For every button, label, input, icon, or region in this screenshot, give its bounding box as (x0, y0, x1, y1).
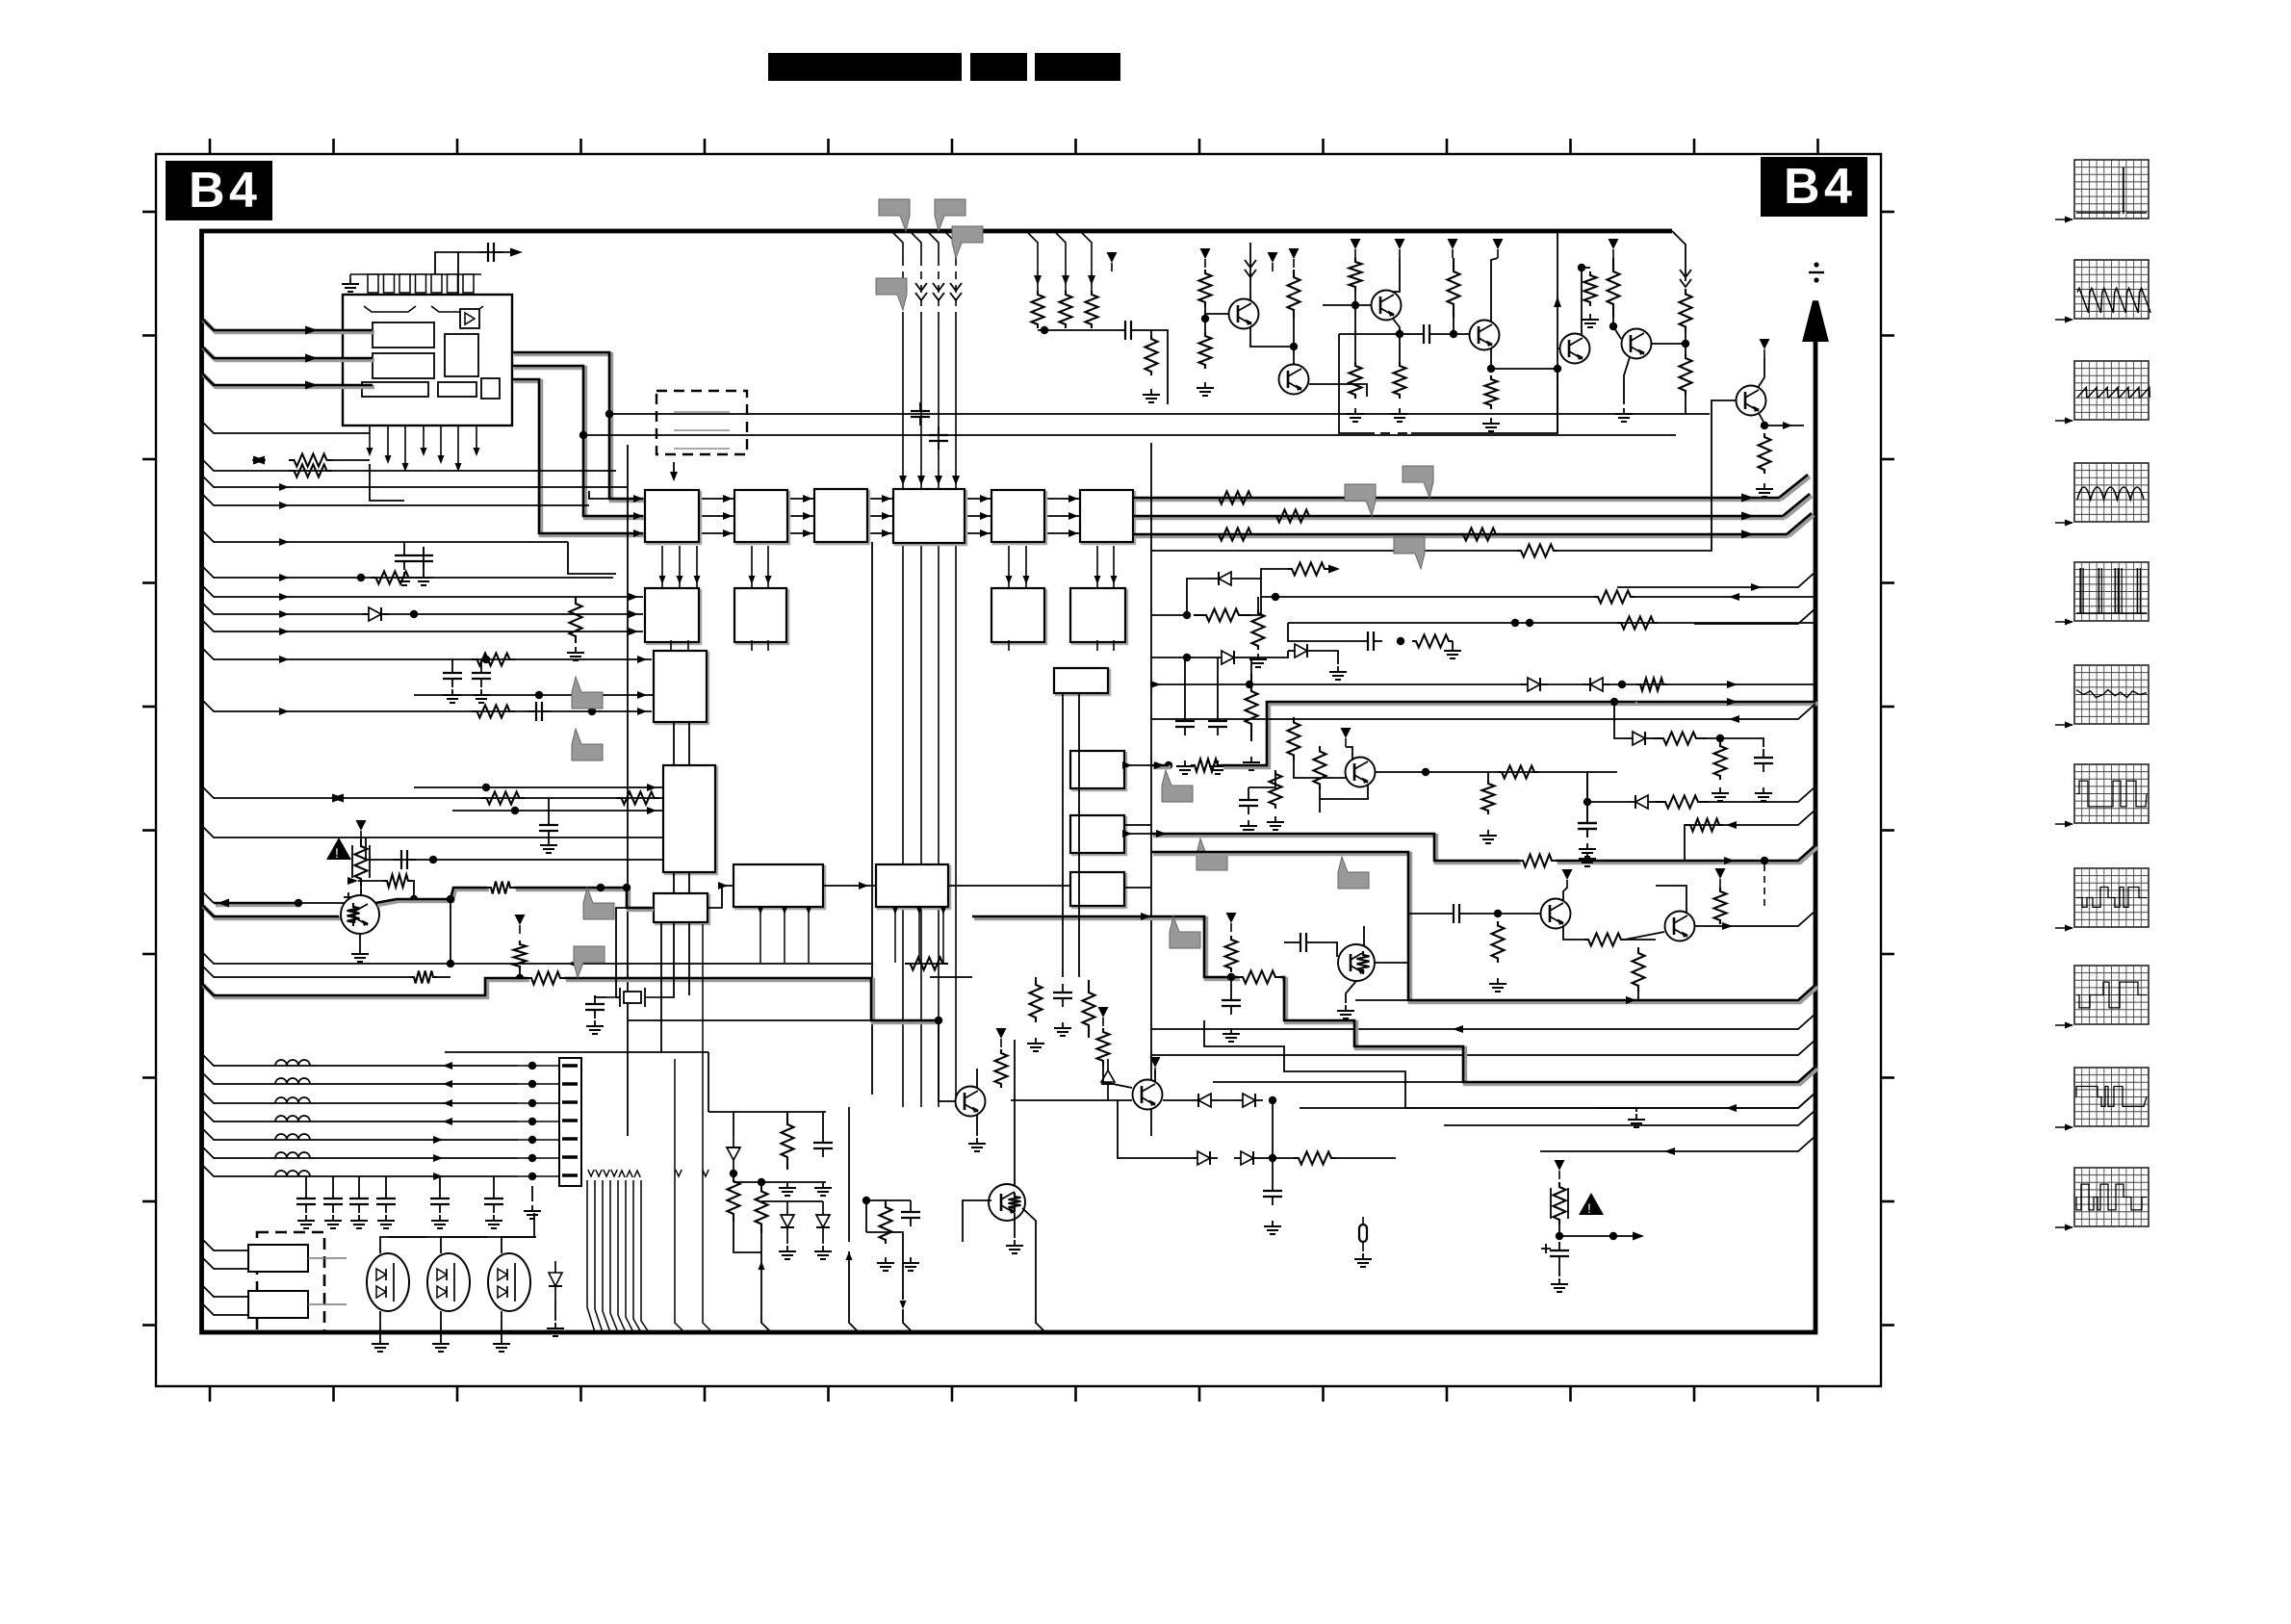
oscilloscope waveform thumbnail W2 (2055, 260, 2150, 323)
junction y833 (1583, 798, 1591, 806)
wire oc3 gnd (501, 1311, 502, 1338)
resistor R_q1b (487, 882, 514, 894)
supply arrow S_iso2 (1555, 1160, 1565, 1179)
capacitor C_f1 (393, 850, 416, 869)
wire iso1 (298, 902, 361, 904)
ground G_iso1 (352, 916, 370, 930)
resistor R_te1 (1608, 258, 1620, 318)
resistor R_c4 (1252, 609, 1265, 650)
wire tb em rail (1491, 368, 1557, 370)
wire qr em (1346, 981, 1356, 1003)
transistor Q2 (1346, 758, 1376, 787)
wire q2 hb (1248, 770, 1275, 787)
arrowhead wire exit y1039 (1626, 996, 1636, 1004)
wire ct1 (305, 1176, 307, 1190)
wire J1 gnd (531, 1186, 533, 1201)
ic U1 sub-block E (438, 382, 476, 397)
bus RGB red (1133, 498, 1781, 500)
diode D_r3 (1628, 795, 1655, 809)
arrowhead st2b (1724, 857, 1735, 864)
ground G_q13 (1006, 1240, 1023, 1253)
wire bc v2b (760, 1233, 762, 1252)
ic U1 sub-block D (362, 382, 428, 397)
resistor R_rgb4 (1459, 528, 1500, 541)
arrowhead wire in y620 (279, 593, 289, 601)
ground G_oc2 (432, 1338, 450, 1352)
arrowhead tun2 (443, 1099, 452, 1107)
ground G_td em (1615, 408, 1633, 422)
capacitor C_t1 (296, 1190, 316, 1213)
wire trio2 (1140, 329, 1151, 331)
wire in y525 (201, 493, 589, 505)
arrowhead q3b (1722, 922, 1733, 930)
wire x1618 (1557, 231, 1558, 433)
arrowheads RGB (1741, 494, 1754, 539)
wire exit y648b (1694, 608, 1815, 624)
diode D_c3 (1288, 644, 1315, 657)
wire U1 top feed (435, 252, 458, 274)
bus q1 out2 (514, 888, 654, 910)
wire oc2 top (441, 1237, 487, 1253)
capacitor C_q2o (1578, 814, 1597, 838)
supply arrow S_a (356, 820, 367, 839)
junction y647c (1526, 619, 1533, 627)
capacitor C_u563_1 (414, 547, 433, 570)
transistor Q3 (1541, 899, 1571, 929)
ic block U12 (654, 651, 708, 724)
wire g2 (616, 908, 654, 972)
wire tuner in y1107 (201, 1053, 518, 1066)
transistor Q5 (1229, 299, 1259, 329)
resistor R_t1 (1032, 291, 1044, 328)
diode D_r1 (1626, 732, 1653, 745)
optocoupler OC1 (367, 1253, 409, 1311)
wire td col (1652, 343, 1686, 345)
resistor R_r3 (1655, 796, 1709, 809)
capacitor C_iso1 (351, 891, 371, 915)
iso zigzag Q1 (348, 903, 360, 926)
wire q1 drop (450, 899, 451, 964)
wire u16 out (948, 885, 1070, 887)
wire U2 loop (673, 462, 675, 472)
resistor R_q2d (1498, 766, 1538, 779)
wire dc4 (1635, 596, 1815, 598)
svg-text:!: ! (1587, 1200, 1591, 1216)
resistor R_stA2 (1225, 936, 1238, 972)
arrowhead qa (1783, 422, 1792, 429)
junction q1o2 (623, 884, 631, 891)
wire q3 b (1468, 913, 1540, 915)
up arrow bc (759, 1261, 765, 1270)
ground G_t3 (350, 1215, 368, 1228)
capacitor C_u685_0 (443, 664, 462, 687)
wire y647 (1288, 622, 1515, 624)
wire r1b (1707, 738, 1763, 747)
arrowhead u19 (1122, 830, 1132, 838)
resistor R_tb3 (1485, 375, 1498, 409)
junction dc2 (1272, 593, 1279, 601)
zener diode D_z1 (727, 1136, 740, 1173)
capacitor C_rc2 (901, 1203, 920, 1226)
resistor R_1751b (1680, 354, 1692, 395)
resistor R_t4 (1145, 335, 1158, 375)
bus x652 (627, 445, 629, 1136)
wire bc v1b (734, 1222, 761, 1252)
connector flag F11 (1170, 916, 1200, 948)
ground G_s1265 (1209, 760, 1226, 774)
wire in y829 (201, 786, 663, 798)
wire q12 e (976, 1114, 978, 1136)
arrowhead e2 (637, 691, 647, 699)
wire e down2 (688, 722, 690, 765)
junction q1c (410, 895, 418, 903)
oscilloscope waveform thumbnail W4 (2055, 463, 2149, 527)
ground G_exit (1628, 1114, 1645, 1127)
inductor L5 (275, 1134, 310, 1140)
ground G_y666 (1444, 645, 1461, 658)
wire b2 down (1272, 1100, 1274, 1158)
ic U1 amp cell (460, 309, 479, 328)
wire fb loop2 (1339, 334, 1375, 433)
plus sign iso2 (1541, 1244, 1551, 1253)
wire trio join (1038, 329, 1117, 331)
bus q1 col (375, 888, 489, 905)
oscilloscope waveform thumbnail W8 (2055, 868, 2149, 932)
resistor R_in600 (371, 572, 414, 584)
wire y666 (1288, 623, 1359, 641)
arrowhead b685 (637, 656, 647, 663)
arrowhead tun0 (443, 1062, 452, 1070)
ic U1 sub-block B (373, 353, 434, 378)
wire bc h2 (734, 1181, 826, 1183)
resistor R_rc1 (880, 1203, 892, 1244)
wire y729 tap (1614, 702, 1626, 738)
ground G_r1 (1755, 787, 1772, 801)
wire qr cap in (1284, 941, 1292, 943)
wire q2 em (1320, 785, 1368, 799)
capacitor C_x1 (585, 995, 605, 1018)
supply arrow S_b2 (1098, 1007, 1109, 1026)
wire dopt (554, 1302, 556, 1321)
supply arrow S_q5 (1200, 248, 1211, 268)
bus RGB green bend (1783, 494, 1812, 518)
wire q13 b (963, 1200, 991, 1242)
wire ct5 (439, 1176, 441, 1190)
wire q3b col (1656, 886, 1686, 913)
junction q2o (1422, 768, 1429, 776)
ic block U15 (734, 864, 825, 909)
fuse F1 (1359, 1217, 1367, 1251)
arrowhead wire exit y1069 (1453, 1025, 1463, 1033)
wire tc col (1582, 268, 1590, 335)
wire y683b (1242, 651, 1288, 657)
ground G_t2 (324, 1215, 342, 1228)
resistor R_r2 (1714, 742, 1727, 780)
ground G_z2 (779, 1246, 796, 1259)
arrowhead dc (1328, 565, 1340, 574)
ground G_t6 (485, 1215, 502, 1228)
resistor R_in829 (481, 792, 525, 805)
diode D_b2 (1236, 1094, 1263, 1107)
wire y572 (1151, 550, 1517, 552)
connector flag F5 (1197, 838, 1227, 870)
ic U1 sub-block C (445, 334, 478, 376)
wire oc1 gnd (379, 1311, 381, 1338)
dashed tuner box (257, 1232, 324, 1332)
bus x1196 (1150, 443, 1152, 1136)
wire rstair (519, 970, 521, 978)
down arrow rc (900, 1301, 907, 1309)
arrowhead y857 (1726, 821, 1737, 829)
ic block U2 (645, 490, 701, 544)
transistor Q9 (1560, 334, 1590, 364)
ground G_q2b (1267, 816, 1284, 830)
wire q5 em (1250, 326, 1294, 347)
connector flag F1b (1345, 484, 1376, 516)
capacitor C_stA (1222, 992, 1241, 1015)
junction b4 (1269, 1154, 1276, 1162)
ic block U17 (1054, 668, 1110, 695)
wire rc v1 (848, 1107, 850, 1242)
ground G_oc1 (372, 1338, 389, 1352)
resistor R_st2b (1714, 888, 1727, 924)
ic U1 sub-block F (481, 378, 500, 399)
wire q14 c (1154, 1070, 1156, 1082)
wire tuner in y1203 (201, 1146, 518, 1158)
wire exit y1096 (1151, 1040, 1815, 1055)
bus U1 out 2 (512, 366, 645, 518)
connector flag F6 (1338, 857, 1369, 889)
bus out y938 (214, 903, 300, 905)
ground G_z3 (814, 1246, 832, 1259)
wire bc v2c (761, 1252, 771, 1332)
arrowhead wire in y600 (279, 574, 289, 581)
ground G_q12 (968, 1138, 986, 1151)
wire q2 o4 (1587, 771, 1617, 773)
bus rowA y554 (639, 532, 1107, 534)
diode D_c4 (1521, 678, 1548, 691)
junction d600 (357, 574, 365, 581)
wire rc4 (1257, 597, 1259, 609)
wires rowB下 stubs (671, 640, 1114, 651)
supply arrow S_q6 (1289, 248, 1300, 268)
wire q1 em (359, 934, 361, 948)
arrowhead b739 (637, 708, 647, 715)
ground G_q2o (1579, 843, 1596, 857)
wire q14 out (1163, 1099, 1191, 1101)
junction bc1 (730, 1170, 737, 1177)
wire ta em (1393, 319, 1400, 362)
arrowhead y729 (1727, 698, 1738, 706)
wire q3 col (1563, 888, 1567, 901)
wire U1 pinrow stub (349, 274, 351, 278)
wire qr out (1375, 962, 1408, 964)
oscilloscope waveform thumbnail W3 (2055, 361, 2149, 425)
resistor R_q2e (1482, 780, 1495, 814)
resistor R_q6a (1288, 270, 1300, 318)
ic block U5 (893, 489, 966, 545)
tuner block T2 (248, 1291, 308, 1318)
wire in y600 (201, 565, 613, 578)
capacitor C_t4 (376, 1190, 396, 1213)
junction td col (1682, 340, 1689, 348)
arrowhead vin2 (305, 354, 318, 363)
zener diode D_z2 (781, 1201, 794, 1244)
wire dc mid (1251, 597, 1261, 615)
wire bc top (708, 1111, 826, 1113)
diode D_b1 (1191, 1094, 1218, 1107)
ground G_s1300 (1243, 757, 1260, 770)
chevrons q5 (1245, 260, 1256, 277)
redacted title bar 1 (768, 53, 962, 81)
wire iso2 node (1558, 1224, 1560, 1236)
resistor R_y647 (1617, 617, 1658, 630)
wire exit y1169 (1444, 1110, 1815, 1125)
ground G_stA (1223, 1028, 1240, 1042)
supply arrow S_stA (1226, 913, 1237, 932)
supply arrow S_tc (1448, 239, 1458, 258)
capacitor C_y666 (1359, 632, 1382, 651)
wire bundle sweep2 (675, 924, 712, 1332)
resistor R_bc2 (756, 1182, 768, 1233)
resistor R_c2 (1288, 563, 1328, 576)
dashed drop st2 (1763, 864, 1765, 907)
wire y857 (1685, 810, 1815, 825)
wire q13 out (1022, 1208, 1045, 1332)
bus RGB blue (1133, 534, 1789, 536)
resistor R_stair (514, 941, 527, 970)
connector flag F10 (876, 278, 907, 310)
wire rs1300 (1250, 657, 1252, 674)
wire bc link (761, 1200, 787, 1202)
junction ta em (1396, 330, 1403, 338)
connector flag F8 (935, 199, 965, 231)
wire in y638 (201, 602, 643, 614)
capacitor C_u685_1 (472, 664, 491, 687)
arrowhead tun5 (433, 1154, 443, 1162)
arrowhead b620 (629, 593, 638, 601)
left ruler ticks (142, 212, 156, 1326)
arrowhead tun3 (443, 1118, 452, 1125)
wire exit y1151 (1300, 1093, 1815, 1108)
ground G_t4 (1143, 389, 1160, 402)
junction q6 (1290, 343, 1298, 350)
warning triangle W2 (1579, 1193, 1604, 1216)
arrowhead wire in y638 (279, 610, 289, 618)
bus stairA (972, 916, 1240, 979)
capacitor C_t5 (430, 1190, 450, 1213)
wire y1015 mid (930, 976, 972, 978)
wire bc h3 (787, 1200, 823, 1202)
junction e2 (535, 691, 543, 699)
transistor Q1 (341, 895, 379, 934)
wire m1 top (1035, 977, 1037, 980)
wire tuner y1318 (201, 1256, 248, 1269)
connector flag F4 (1162, 770, 1193, 802)
transistor Q14 (1133, 1080, 1163, 1110)
diode D_in1 (362, 607, 389, 621)
capacitor C_m2 (1053, 984, 1072, 1007)
oscilloscope waveform thumbnail W1 (2055, 160, 2149, 223)
wire ta base rail (1323, 304, 1372, 306)
capacitor C_r1 (1754, 749, 1773, 772)
arrowhead iso2 (1633, 1232, 1644, 1241)
wire e2 (414, 694, 654, 696)
wire y683 (1151, 657, 1215, 658)
arrowhead wire in y739 (279, 708, 289, 715)
rail y430b (1201, 413, 1686, 415)
supply arrow S_q2 (1341, 728, 1351, 747)
connector flag F2 (572, 677, 603, 709)
bidir arrow y829 (331, 794, 345, 803)
capacitor C_u1a (479, 243, 502, 262)
wire ct4 (385, 1176, 387, 1190)
connector flag F9 (952, 226, 983, 258)
wire q2 o3 (1586, 772, 1588, 814)
ground G_oc3 (493, 1338, 510, 1352)
ground G_u1 (342, 278, 359, 292)
junction f4 (429, 856, 437, 864)
wire in y685 (201, 647, 652, 659)
resistor R_rgb1 (1215, 492, 1255, 504)
ground G_dopt (547, 1323, 564, 1336)
ic block U4 (814, 489, 869, 544)
ground G_s1231 (1176, 760, 1194, 774)
resistor R_q2a (1288, 717, 1300, 760)
wire 1751 down (1686, 395, 1710, 414)
junction rstair (516, 974, 524, 982)
wire ct6 (493, 1176, 495, 1190)
arrowhead wire in y563 (279, 538, 289, 546)
bus stair1 (1635, 702, 1817, 704)
capacitor C_t6 (484, 1190, 503, 1213)
wire q2 o3b (1586, 772, 1588, 802)
ic block U8 (645, 588, 701, 644)
transistor Q12 (956, 1087, 986, 1117)
wire y1093 (445, 1051, 708, 1053)
ground G_q2a (1240, 820, 1257, 834)
wire q5 b (1204, 306, 1206, 332)
arrowhead drop1134 (1088, 275, 1095, 285)
ic block U18 (1070, 751, 1126, 790)
up arrow x1618 (1554, 296, 1561, 307)
arrowhead wire exit y1196 (1664, 1147, 1675, 1155)
ground G_qa (1756, 483, 1773, 497)
bus stair2 (1151, 834, 1521, 863)
resistor R_y666 (1412, 635, 1453, 648)
wire te down (1612, 318, 1614, 326)
wire y1001 path (905, 963, 948, 965)
resistor R_q5a (1199, 270, 1212, 306)
junction q1o (597, 884, 605, 891)
svg-text:!: ! (335, 845, 339, 861)
resistor R_tc2 (1584, 271, 1597, 306)
resistor R_1001 (905, 958, 948, 970)
wire x1 (616, 972, 620, 997)
supply arrow S_ta (1351, 239, 1361, 258)
top ruler ticks (210, 139, 1818, 154)
resistor R_rgb2 (1273, 510, 1313, 523)
ground G_m2 (1054, 1022, 1071, 1036)
wire y666b (1452, 641, 1454, 645)
dash-dot fb (1380, 432, 1407, 434)
wire y1015b (437, 976, 450, 978)
wire bc v1 (733, 1112, 734, 1136)
chassis ground symbol (1809, 262, 1824, 282)
svg-text:4: 4 (229, 163, 257, 219)
resistor R_q3c (1633, 947, 1645, 992)
supply arrow S_st (515, 915, 526, 934)
